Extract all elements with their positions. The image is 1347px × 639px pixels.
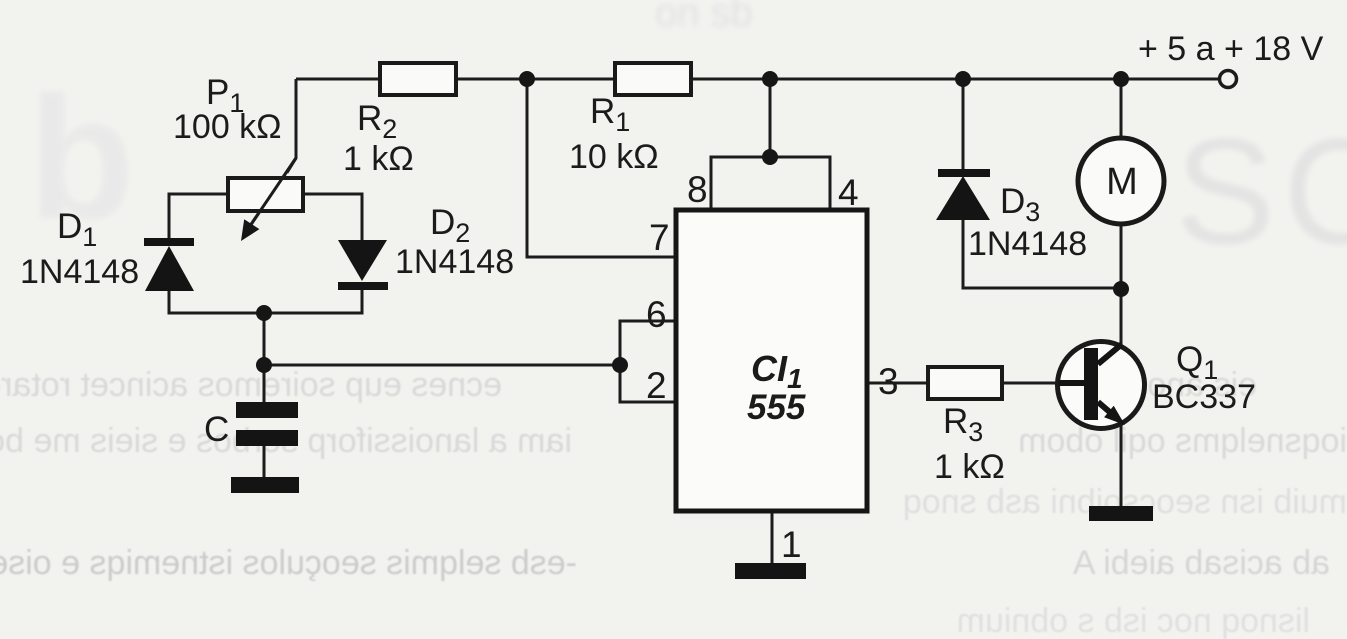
svg-text:on sb: on sb <box>655 0 753 35</box>
svg-text:555: 555 <box>747 388 806 427</box>
svg-text:10 kΩ: 10 kΩ <box>569 138 659 176</box>
svg-text:R1: R1 <box>590 92 630 137</box>
svg-text:6: 6 <box>646 294 667 335</box>
svg-text:3: 3 <box>878 361 899 402</box>
svg-text:100 kΩ: 100 kΩ <box>173 108 282 146</box>
svg-text:-esb selqmis seoçulos istnemiq: -esb selqmis seoçulos istnemiqs e oise a… <box>0 544 577 582</box>
svg-text:C: C <box>204 410 229 449</box>
svg-text:ioqsnelqms oqil obom: ioqsnelqms oqil obom <box>1018 422 1347 460</box>
svg-text:1 kΩ: 1 kΩ <box>343 140 414 178</box>
svg-text:R2: R2 <box>357 99 397 144</box>
svg-text:2: 2 <box>646 365 667 406</box>
svg-text:M: M <box>1106 161 1138 203</box>
svg-text:D3: D3 <box>1000 182 1040 227</box>
svg-text:ecnes eup soiremos acincet rot: ecnes eup soiremos acincet rotaro bom <box>0 366 502 404</box>
svg-text:7: 7 <box>649 217 670 258</box>
svg-text:+ 5 a + 18 V: + 5 a + 18 V <box>1138 30 1324 68</box>
svg-text:D2: D2 <box>430 203 470 248</box>
svg-text:1N4148: 1N4148 <box>395 243 514 281</box>
svg-text:lisnoq noc isb s obnium: lisnoq noc isb s obnium <box>957 602 1310 639</box>
svg-text:1: 1 <box>781 524 802 565</box>
svg-text:4: 4 <box>838 172 859 213</box>
svg-text:8: 8 <box>687 169 708 210</box>
svg-text:1 kΩ: 1 kΩ <box>934 448 1005 486</box>
svg-text:1N4148: 1N4148 <box>20 253 139 291</box>
svg-text:SC: SC <box>1175 107 1347 275</box>
svg-text:ab acisab aiebi A: ab acisab aiebi A <box>1073 544 1330 582</box>
svg-text:BC337: BC337 <box>1152 378 1256 416</box>
svg-text:1N4148: 1N4148 <box>968 225 1087 263</box>
svg-text:R3: R3 <box>943 402 983 447</box>
